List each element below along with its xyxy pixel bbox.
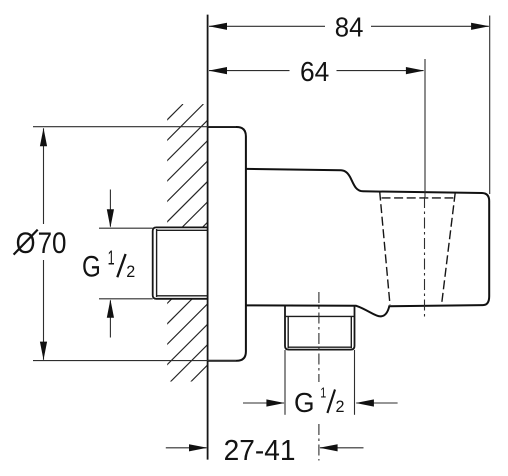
holder cone hidden rim: [382, 197, 454, 199]
label G1/2 left up arrow shaft: [109, 300, 111, 337]
outlet thread outer: [285, 305, 355, 349]
dim 27-41 left arrowhead: [189, 444, 207, 451]
label G1/2 left extension top: [99, 227, 153, 229]
dim 84 left arrowhead: [209, 23, 227, 30]
wall line: [207, 15, 209, 460]
outlet center line lower: [318, 424, 320, 461]
inlet thread outer: [153, 227, 208, 298]
holder cone hidden left edge: [380, 192, 390, 305]
dim G1/2 bottom left arrow shaft: [243, 402, 284, 404]
svg-text:2: 2: [126, 262, 135, 281]
dim 84 line: [209, 25, 489, 27]
svg-text:1: 1: [108, 247, 115, 269]
inlet thread inner lines: [157, 229, 208, 297]
dim O70 bottom arrowhead: [40, 342, 47, 360]
label G1/2 left down arrow shaft: [109, 190, 111, 227]
dim G1/2 bottom left arrowhead: [266, 399, 284, 406]
svg-text:G: G: [82, 251, 101, 284]
holder center line: [424, 197, 426, 318]
holder cone hidden right edge: [442, 193, 456, 305]
dim 64 line: [209, 70, 424, 72]
dim O70 extension top: [33, 126, 236, 128]
dim O70 text: [14, 227, 67, 260]
svg-text:70: 70: [38, 227, 67, 260]
body outline: [246, 169, 489, 317]
outlet center line upper: [318, 292, 320, 382]
svg-text:2: 2: [336, 397, 345, 416]
dim G1/2 bottom right arrow shaft: [356, 402, 397, 404]
dim G1/2 bottom extension left: [284, 350, 286, 415]
dim G1/2 bottom right arrowhead: [356, 399, 374, 406]
dim 64 extension line: [424, 59, 426, 197]
svg-text:1: 1: [320, 385, 326, 402]
dim G1/2 bottom extension right: [354, 350, 356, 415]
dim O70 top arrowhead: [40, 128, 47, 146]
dim O70 line: [43, 128, 45, 359]
svg-text:84: 84: [335, 12, 364, 43]
dim 64 left arrowhead: [209, 67, 227, 74]
svg-text:64: 64: [300, 56, 329, 87]
dim 27-41 left arrow shaft: [166, 447, 207, 449]
svg-text:27-41: 27-41: [224, 435, 296, 467]
label G1/2 left text: [82, 247, 135, 283]
dim 27-41 right arrow shaft: [320, 447, 364, 449]
dim G1/2 bottom text: [294, 385, 345, 419]
outlet thread inner lines: [285, 316, 355, 348]
dim 27-41 right arrowhead: [319, 444, 337, 451]
label G1/2 left extension bottom: [99, 298, 153, 300]
dim O70 extension bottom: [33, 360, 236, 362]
dim 64 right arrowhead: [406, 67, 424, 74]
label G1/2 left down arrowhead: [107, 209, 114, 227]
label G1/2 left up arrowhead: [107, 299, 114, 317]
flange (escutcheon) outline: [208, 127, 246, 361]
dim 84 right arrowhead: [471, 23, 489, 30]
wall hatching: [0, 104, 469, 382]
svg-text:G: G: [294, 387, 315, 418]
dim 84 extension line right: [489, 16, 491, 195]
